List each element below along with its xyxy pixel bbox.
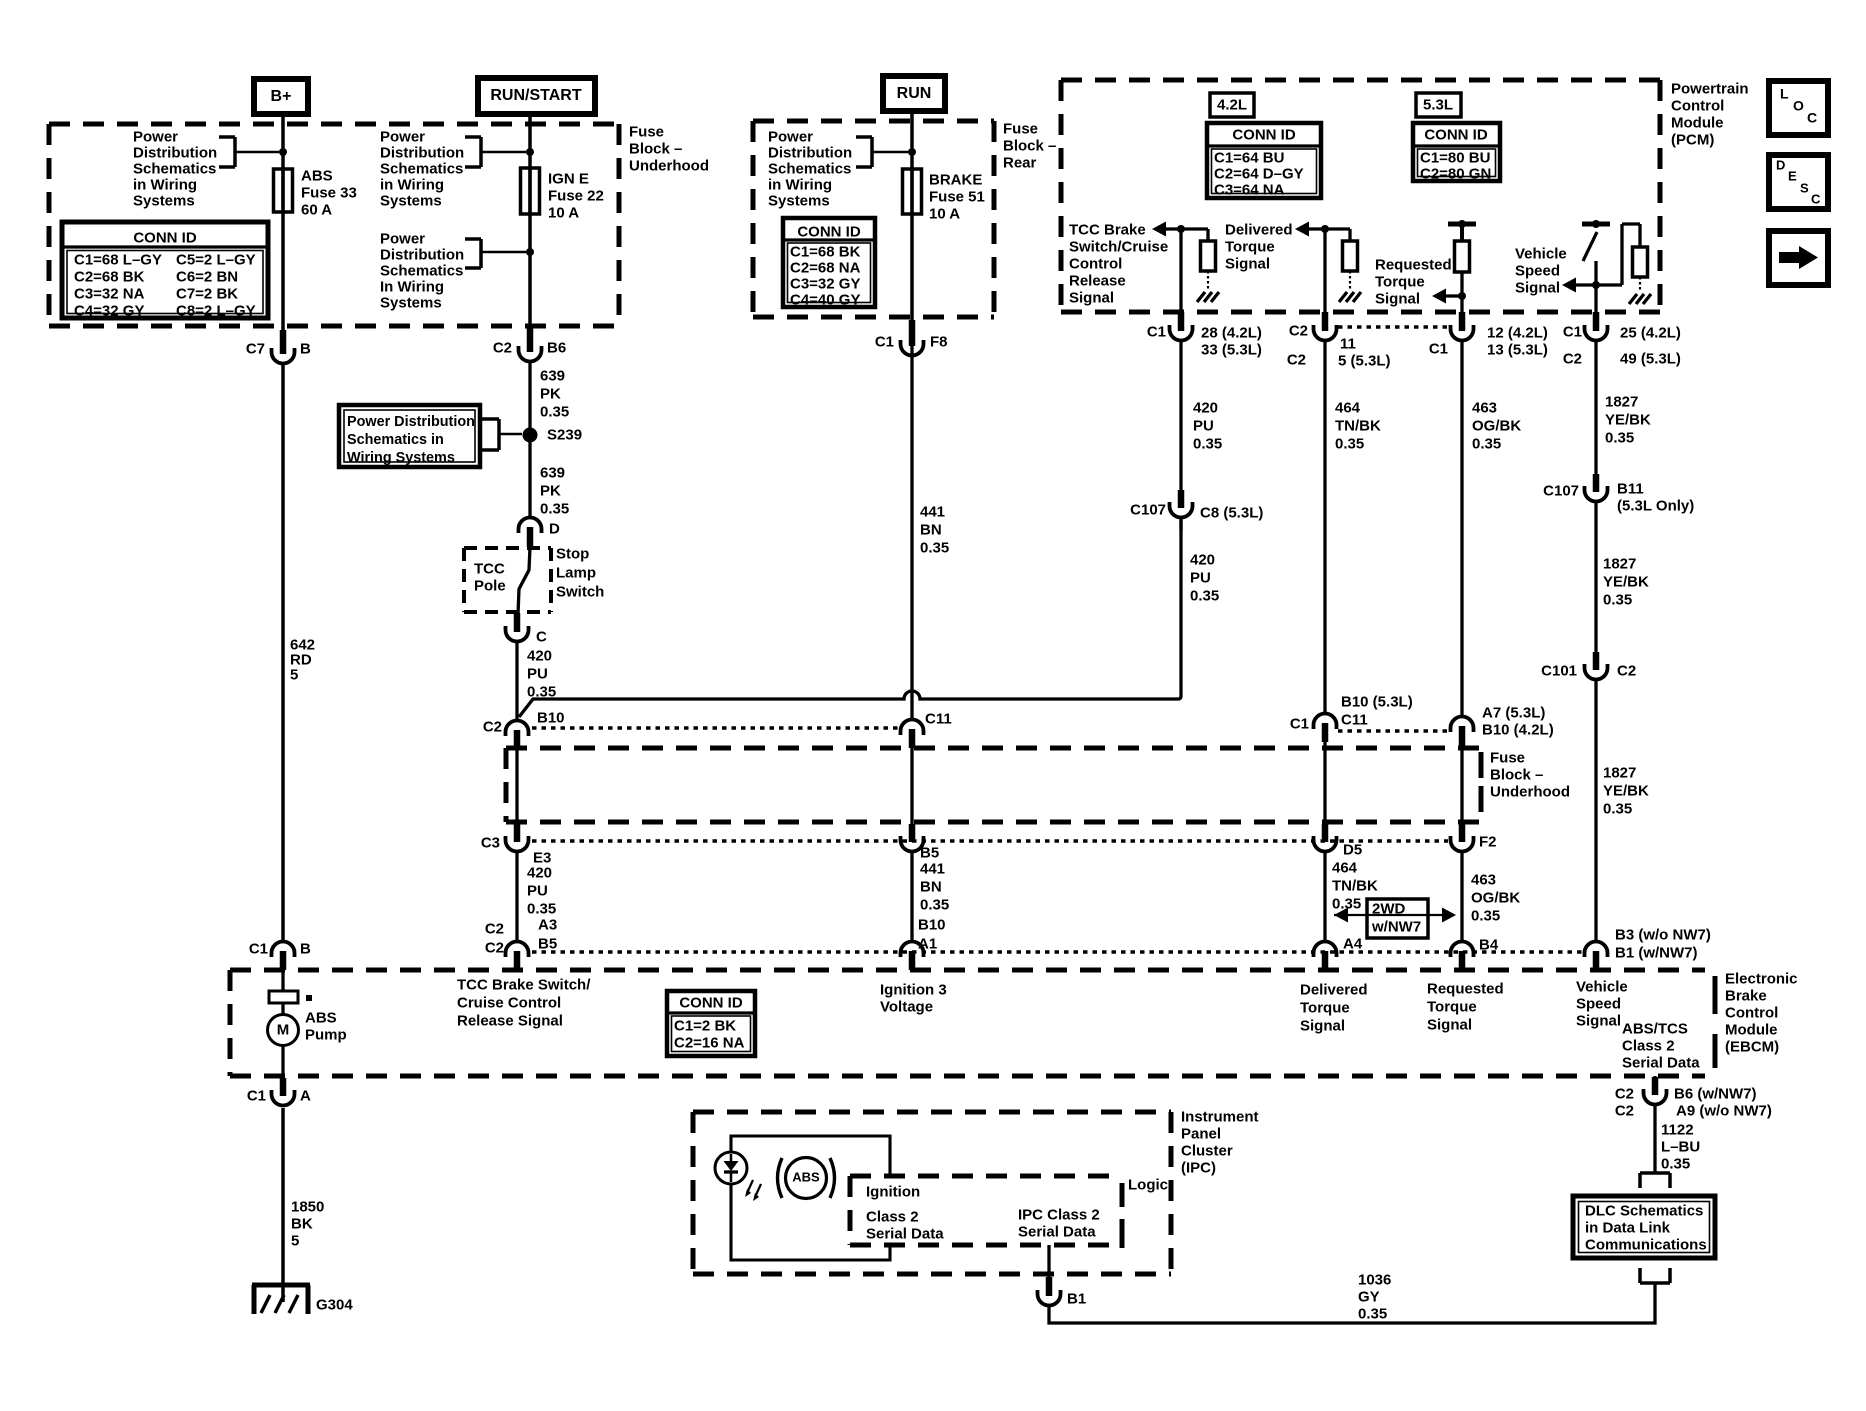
svg-text:C8 (5.3L): C8 (5.3L)	[1200, 504, 1263, 521]
svg-text:0.35: 0.35	[1472, 435, 1501, 452]
svg-text:CONN ID: CONN ID	[133, 229, 197, 246]
svg-text:C2: C2	[483, 718, 502, 735]
svg-text:1827: 1827	[1603, 764, 1636, 781]
wire 642 RD 5	[281, 363, 285, 943]
svg-text:Stop: Stop	[556, 545, 589, 562]
connector pins B3 B1	[1585, 926, 1711, 970]
svg-text:C1=64 BU: C1=64 BU	[1214, 149, 1284, 166]
wire PCM col2 to pin	[1323, 229, 1326, 322]
wire 1827 YE/BK col4	[1594, 341, 1597, 476]
connector C1 pin F8	[875, 320, 948, 356]
svg-text:D: D	[1776, 158, 1785, 173]
fuse ABS Fuse 33 60 A	[274, 169, 293, 212]
svg-text:Ignition: Ignition	[866, 1183, 920, 1200]
svg-text:Serial Data: Serial Data	[1018, 1223, 1096, 1240]
DESC reference box	[1769, 155, 1828, 209]
svg-text:441: 441	[920, 503, 945, 520]
svg-text:4.2L: 4.2L	[1217, 96, 1247, 113]
svg-text:Signal: Signal	[1300, 1017, 1345, 1034]
ground G304	[252, 1285, 310, 1314]
label 420 PU 0.35 (switch)	[527, 647, 556, 700]
svg-text:1850: 1850	[291, 1198, 324, 1215]
svg-text:C: C	[1811, 192, 1821, 207]
label 420 PU 0.35 col1 lower	[1190, 551, 1219, 604]
node junction on B+ wire	[279, 148, 287, 156]
label 464 TN/BK 0.35 lower	[1332, 859, 1378, 912]
svg-text:0.35: 0.35	[920, 896, 949, 913]
svg-text:YE/BK: YE/BK	[1603, 782, 1649, 799]
svg-text:PK: PK	[540, 385, 561, 402]
svg-text:Delivered: Delivered	[1300, 981, 1368, 998]
PCM connector C1 pin 28/33	[1147, 312, 1262, 358]
wire 463 OG/BK to EBCM	[1460, 851, 1463, 942]
ABS telltale symbol	[778, 1158, 835, 1199]
wire RUN to C1 F8	[910, 111, 914, 327]
svg-text:2WD: 2WD	[1372, 900, 1406, 917]
svg-text:Power: Power	[133, 128, 178, 145]
svg-text:B10 (4.2L): B10 (4.2L)	[1482, 721, 1554, 738]
IPC lamp wiring	[731, 1136, 890, 1260]
svg-text:25 (4.2L): 25 (4.2L)	[1620, 324, 1681, 341]
svg-text:F2: F2	[1479, 833, 1497, 850]
svg-text:C2: C2	[1615, 1085, 1634, 1102]
svg-text:C8=2 L–GY: C8=2 L–GY	[176, 302, 256, 319]
dotted connector line C2-C11	[532, 726, 899, 730]
svg-text:Pole: Pole	[474, 577, 506, 594]
label ABS/TCS Class 2 Serial Data	[1622, 1020, 1700, 1071]
svg-text:B4: B4	[1479, 936, 1499, 953]
label IGN E Fuse 22 10 A	[548, 170, 604, 221]
svg-text:13 (5.3L): 13 (5.3L)	[1487, 341, 1548, 358]
svg-text:TCC Brake Switch/: TCC Brake Switch/	[457, 976, 591, 993]
svg-text:C2: C2	[1289, 322, 1308, 339]
svg-text:C1: C1	[1290, 715, 1309, 732]
svg-text:C6=2 BN: C6=2 BN	[176, 268, 238, 285]
svg-text:420: 420	[527, 864, 552, 881]
svg-text:0.35: 0.35	[1471, 907, 1500, 924]
PCM col2 pull-up resistor to ground	[1325, 229, 1361, 302]
label ABS Pump	[305, 1009, 347, 1043]
dotted connector line PCM C2-C1	[1338, 325, 1450, 329]
PCM col4 source bar and switch	[1582, 220, 1610, 322]
svg-text:B10: B10	[537, 709, 565, 726]
label Delivered Torque Signal (EBCM)	[1300, 981, 1368, 1034]
connector C7 pin B	[246, 330, 311, 364]
svg-text:464: 464	[1332, 859, 1358, 876]
wire 1122 L-BU	[1653, 1104, 1656, 1173]
svg-text:M: M	[277, 1021, 290, 1038]
svg-text:C1=80 BU: C1=80 BU	[1420, 149, 1490, 166]
svg-text:C2=64 D–GY: C2=64 D–GY	[1214, 165, 1304, 182]
svg-text:C1: C1	[247, 1087, 266, 1104]
label power distribution schematics (ign lower)	[380, 230, 464, 311]
wire B+ to fuse 33	[281, 114, 285, 330]
svg-text:C107: C107	[1130, 501, 1166, 518]
svg-text:C2: C2	[485, 920, 504, 937]
fuse BRAKE Fuse 51 10 A	[903, 169, 922, 214]
label Stop Lamp Switch	[556, 545, 604, 600]
electronic brake control module box	[230, 970, 1705, 1076]
svg-text:0.35: 0.35	[1193, 435, 1222, 452]
svg-text:Signal: Signal	[1225, 255, 1270, 272]
connector C107 pin B11	[1543, 474, 1694, 514]
svg-text:C11: C11	[925, 710, 952, 727]
svg-text:Fuse: Fuse	[1490, 749, 1525, 766]
svg-text:B5: B5	[920, 844, 939, 861]
svg-text:B: B	[300, 940, 311, 957]
svg-text:Torque: Torque	[1375, 273, 1425, 290]
svg-text:C3: C3	[481, 834, 500, 851]
label 1827 YE/BK 0.35 col4	[1605, 393, 1651, 446]
svg-text:0.35: 0.35	[540, 500, 569, 517]
label G304	[316, 1296, 353, 1313]
label Delivered Torque Signal (PCM)	[1225, 221, 1293, 272]
connector pin F2	[1451, 824, 1497, 851]
label Logic	[1128, 1176, 1168, 1193]
label Fuse Block - Underhood middle	[1490, 749, 1570, 800]
svg-text:Electronic: Electronic	[1725, 970, 1798, 987]
svg-text:C1: C1	[249, 940, 268, 957]
svg-text:Signal: Signal	[1515, 279, 1560, 296]
label TCC Brake Switch Cruise Control Release Signal	[457, 976, 591, 1029]
wire 464 TN/BK to EBCM	[1323, 851, 1326, 942]
svg-text:Distribution: Distribution	[380, 246, 464, 263]
wire PCM col1 to pin	[1179, 229, 1182, 322]
bracket to RUN/START wire upper	[465, 137, 526, 167]
wire through fuse block (RUN col)	[910, 748, 913, 826]
label S239	[547, 426, 582, 443]
wire 420 PU to EBCM	[515, 851, 518, 942]
svg-text:C1: C1	[1429, 340, 1448, 357]
connector C2 pins B6/A9	[1615, 1076, 1772, 1119]
svg-text:Control: Control	[1725, 1004, 1778, 1021]
svg-text:C7=2 BK: C7=2 BK	[176, 285, 238, 302]
svg-text:Module: Module	[1725, 1021, 1778, 1038]
svg-text:Control: Control	[1069, 255, 1122, 272]
svg-text:Control: Control	[1671, 97, 1724, 114]
svg-text:Schematics: Schematics	[380, 160, 463, 177]
splice S239	[523, 428, 538, 443]
label Ignition 3 Voltage	[880, 981, 947, 1015]
svg-text:PU: PU	[527, 882, 548, 899]
svg-text:w/NW7: w/NW7	[1371, 918, 1421, 935]
connector table CONN ID 5.3L	[1413, 123, 1500, 182]
svg-text:DLC Schematics: DLC Schematics	[1585, 1202, 1703, 1219]
svg-text:C: C	[536, 628, 547, 645]
wire col3 through fuse block	[1460, 748, 1463, 826]
svg-text:F8: F8	[930, 333, 948, 350]
svg-text:60 A: 60 A	[301, 201, 332, 218]
connector C2 pins A3 B5	[485, 916, 557, 970]
svg-text:5: 5	[291, 1232, 299, 1249]
connector C1 pin A	[247, 1078, 311, 1106]
wire RUN/START to fuse 22	[528, 114, 532, 327]
svg-text:Module: Module	[1671, 114, 1724, 131]
svg-text:0.35: 0.35	[1603, 800, 1632, 817]
svg-text:G304: G304	[316, 1296, 353, 1313]
wire 463 OG/BK col3	[1460, 341, 1463, 717]
svg-text:CONN ID: CONN ID	[679, 994, 743, 1011]
svg-text:B: B	[300, 340, 311, 357]
svg-text:B3 (w/o NW7): B3 (w/o NW7)	[1615, 926, 1711, 943]
svg-text:33 (5.3L): 33 (5.3L)	[1201, 341, 1262, 358]
label 639 PK 0.35 upper	[540, 367, 569, 420]
svg-text:YE/BK: YE/BK	[1603, 573, 1649, 590]
svg-text:A3: A3	[538, 916, 557, 933]
fuse block underhood box	[49, 124, 619, 326]
label power distribution schematics (B+)	[133, 128, 217, 209]
svg-text:in Data Link: in Data Link	[1585, 1219, 1671, 1236]
svg-text:C: C	[1807, 110, 1817, 126]
svg-text:C11: C11	[1341, 711, 1368, 728]
svg-text:A4: A4	[1343, 935, 1363, 952]
svg-text:10 A: 10 A	[548, 204, 579, 221]
svg-text:Fuse: Fuse	[629, 123, 664, 140]
IPC logic dashed box	[850, 1176, 1122, 1248]
svg-text:RUN: RUN	[897, 85, 932, 102]
svg-text:IGN E: IGN E	[548, 170, 589, 187]
svg-text:in Wiring: in Wiring	[380, 176, 444, 193]
svg-text:O: O	[1793, 98, 1804, 114]
svg-text:Pump: Pump	[305, 1026, 347, 1043]
PCM col4 arrow out	[1562, 278, 1596, 293]
dotted connector line middle	[532, 839, 1448, 843]
connector pin D stop lamp switch	[519, 518, 561, 548]
svg-text:Systems: Systems	[380, 192, 442, 209]
svg-text:Switch/Cruise: Switch/Cruise	[1069, 238, 1168, 255]
svg-text:in Wiring: in Wiring	[768, 176, 832, 193]
svg-text:5: 5	[290, 666, 298, 683]
svg-text:C7: C7	[246, 340, 265, 357]
svg-text:Distribution: Distribution	[133, 144, 217, 161]
2WD w/NW7 option box and arrow	[1334, 899, 1456, 938]
svg-text:Serial Data: Serial Data	[1622, 1054, 1700, 1071]
PCM connector C1 pin 12/13	[1429, 312, 1548, 358]
svg-text:Switch: Switch	[556, 583, 604, 600]
wire 464 TN/BK col2	[1323, 341, 1326, 713]
connector table CONN ID 4.2L	[1207, 123, 1321, 198]
svg-text:C101: C101	[1541, 662, 1577, 679]
svg-text:Wiring Systems: Wiring Systems	[347, 450, 455, 466]
svg-text:Torque: Torque	[1427, 998, 1477, 1015]
svg-text:0.35: 0.35	[920, 539, 949, 556]
svg-text:Underhood: Underhood	[629, 157, 709, 174]
PCM col3 arrow out	[1432, 289, 1466, 304]
svg-text:C3=64 NA: C3=64 NA	[1214, 181, 1285, 198]
connector table CONN ID underhood	[62, 222, 268, 319]
node junction on RUN wire	[908, 148, 916, 156]
label 1036 GY 0.35	[1358, 1271, 1391, 1322]
svg-text:L–BU: L–BU	[1661, 1138, 1700, 1155]
svg-text:0.35: 0.35	[527, 900, 556, 917]
svg-text:C2=16 NA: C2=16 NA	[674, 1034, 745, 1051]
wire IPC to B1	[1047, 1245, 1050, 1283]
svg-text:C4=32 GY: C4=32 GY	[74, 302, 144, 319]
svg-text:Cluster: Cluster	[1181, 1142, 1233, 1159]
svg-text:441: 441	[920, 860, 945, 877]
PCM col4 loop to resistor ground	[1596, 224, 1651, 304]
svg-text:Distribution: Distribution	[768, 144, 852, 161]
ABS pump solenoid	[269, 991, 312, 1003]
PCM col1 pull-up resistor to ground	[1181, 229, 1219, 302]
svg-text:C2=80 GN: C2=80 GN	[1420, 165, 1491, 182]
svg-text:Underhood: Underhood	[1490, 783, 1570, 800]
label Vehicle Speed Signal (PCM)	[1515, 245, 1567, 296]
svg-text:Schematics: Schematics	[380, 262, 463, 279]
svg-text:C3=32 GY: C3=32 GY	[790, 275, 860, 292]
svg-text:12 (4.2L): 12 (4.2L)	[1487, 324, 1548, 341]
label Fuse Block - Rear	[1003, 120, 1056, 171]
svg-text:(5.3L Only): (5.3L Only)	[1617, 497, 1694, 514]
svg-text:Fuse 33: Fuse 33	[301, 184, 357, 201]
svg-text:5.3L: 5.3L	[1423, 96, 1453, 113]
svg-text:ABS: ABS	[792, 1170, 820, 1185]
svg-text:Class 2: Class 2	[1622, 1037, 1675, 1054]
next page arrow box	[1769, 231, 1828, 285]
wire branch to PCM col1 with hop over RUN wire	[519, 517, 1181, 717]
wire through fuse block (switch col)	[515, 748, 518, 826]
svg-text:464: 464	[1335, 399, 1361, 416]
svg-text:Distribution: Distribution	[380, 144, 464, 161]
svg-text:C1: C1	[1147, 323, 1166, 340]
svg-text:0.35: 0.35	[540, 403, 569, 420]
wire col2 through fuse block	[1323, 742, 1326, 826]
svg-text:1827: 1827	[1605, 393, 1638, 410]
svg-text:463: 463	[1472, 399, 1497, 416]
svg-text:Speed: Speed	[1515, 262, 1560, 279]
bracket to B+ wire	[219, 137, 279, 167]
svg-text:Fuse 51: Fuse 51	[929, 188, 985, 205]
svg-text:Systems: Systems	[380, 294, 442, 311]
label 1850 BK 5	[291, 1198, 324, 1249]
PCM connector C2 pin 11/5	[1287, 312, 1391, 369]
EBCM label bracket	[1713, 976, 1718, 1068]
svg-text:Block –: Block –	[629, 140, 682, 157]
label 1122 L-BU 0.35	[1661, 1121, 1700, 1172]
svg-text:Cruise Control: Cruise Control	[457, 994, 561, 1011]
connector C2 pin B10	[483, 709, 565, 748]
svg-text:Instrument: Instrument	[1181, 1108, 1259, 1125]
label Instrument Panel Cluster (IPC)	[1181, 1108, 1259, 1176]
svg-text:Schematics: Schematics	[133, 160, 216, 177]
svg-text:Ignition 3: Ignition 3	[880, 981, 947, 998]
node junction on RUN/START wire upper	[526, 148, 534, 156]
svg-text:B+: B+	[271, 88, 292, 105]
label power distribution schematics (ign upper)	[380, 128, 464, 209]
power terminal RUN/START	[478, 78, 595, 114]
svg-text:Signal: Signal	[1375, 290, 1420, 307]
svg-text:Release: Release	[1069, 272, 1126, 289]
label 441 BN 0.35 lower	[920, 860, 949, 913]
svg-text:Power: Power	[768, 128, 813, 145]
svg-text:D: D	[549, 520, 560, 537]
svg-text:(IPC): (IPC)	[1181, 1159, 1216, 1176]
svg-text:PU: PU	[527, 665, 548, 682]
svg-text:A7 (5.3L): A7 (5.3L)	[1482, 704, 1545, 721]
svg-text:Requested: Requested	[1427, 980, 1504, 997]
svg-text:TCC: TCC	[474, 560, 505, 577]
wire col1 lower segment	[1179, 517, 1182, 530]
svg-text:463: 463	[1471, 871, 1496, 888]
svg-text:C1: C1	[875, 333, 894, 350]
connector table CONN ID EBCM	[667, 991, 755, 1056]
svg-text:C2=68 BK: C2=68 BK	[74, 268, 145, 285]
LED light arrows	[745, 1180, 761, 1201]
svg-text:Delivered: Delivered	[1225, 221, 1293, 238]
svg-text:C2=68 NA: C2=68 NA	[790, 259, 861, 276]
svg-text:TN/BK: TN/BK	[1335, 417, 1381, 434]
svg-text:B1 (w/NW7): B1 (w/NW7)	[1615, 944, 1698, 961]
label 420 PU 0.35 (to EBCM)	[527, 864, 556, 917]
svg-text:BN: BN	[920, 521, 942, 538]
label 463 OG/BK 0.35 lower	[1471, 871, 1520, 924]
dotted connector line C1 to next	[1338, 729, 1450, 733]
power distribution schematics box S239	[339, 405, 480, 467]
svg-text:D5: D5	[1343, 841, 1362, 858]
svg-text:ABS: ABS	[305, 1009, 337, 1026]
label 464 TN/BK 0.35 col2	[1335, 399, 1381, 452]
svg-text:C2: C2	[1287, 351, 1306, 368]
svg-text:Power: Power	[380, 128, 425, 145]
connector C2 pin B6	[493, 327, 566, 362]
svg-text:Speed: Speed	[1576, 995, 1621, 1012]
svg-text:B1: B1	[1067, 1290, 1086, 1307]
svg-text:Block –: Block –	[1003, 137, 1056, 154]
svg-text:BK: BK	[291, 1215, 313, 1232]
label TCC Pole	[474, 560, 506, 594]
svg-text:639: 639	[540, 367, 565, 384]
svg-text:1122: 1122	[1661, 1121, 1694, 1138]
svg-text:0.35: 0.35	[1661, 1155, 1690, 1172]
svg-text:5 (5.3L): 5 (5.3L)	[1338, 352, 1391, 369]
svg-text:In Wiring: In Wiring	[380, 278, 444, 295]
svg-text:Systems: Systems	[133, 192, 195, 209]
label 642 RD 5	[290, 636, 315, 683]
svg-text:in Wiring: in Wiring	[133, 176, 197, 193]
svg-text:C2: C2	[1615, 1102, 1634, 1119]
TCC pole dashed box	[464, 548, 551, 612]
svg-text:BRAKE: BRAKE	[929, 171, 982, 188]
svg-text:B10: B10	[918, 916, 946, 933]
svg-text:0.35: 0.35	[1335, 435, 1364, 452]
svg-text:B5: B5	[538, 935, 557, 952]
wire 420 PU col1	[1179, 341, 1182, 492]
fuse block underhood middle box	[506, 748, 1490, 822]
svg-text:E: E	[1788, 169, 1797, 184]
svg-text:Signal: Signal	[1427, 1016, 1472, 1033]
svg-text:C2: C2	[1617, 662, 1636, 679]
svg-text:C5=2 L–GY: C5=2 L–GY	[176, 251, 256, 268]
svg-text:Voltage: Voltage	[880, 998, 933, 1015]
svg-text:Vehicle: Vehicle	[1576, 978, 1628, 995]
svg-text:IPC Class 2: IPC Class 2	[1018, 1206, 1100, 1223]
svg-text:GY: GY	[1358, 1288, 1380, 1305]
svg-text:Logic: Logic	[1128, 1176, 1168, 1193]
svg-text:Serial Data: Serial Data	[866, 1225, 944, 1242]
svg-text:OG/BK: OG/BK	[1472, 417, 1521, 434]
svg-text:Systems: Systems	[768, 192, 830, 209]
node junction on RUN/START wire lower	[526, 248, 534, 256]
svg-text:Class 2: Class 2	[866, 1208, 919, 1225]
powertrain control module box	[1061, 80, 1660, 312]
svg-text:Brake: Brake	[1725, 987, 1767, 1004]
wire 441 BN upper	[910, 341, 913, 719]
svg-text:C4=40 GY: C4=40 GY	[790, 291, 860, 308]
svg-text:PU: PU	[1193, 417, 1214, 434]
label 639 PK 0.35 lower	[540, 464, 569, 517]
label ABS Fuse 33 60 A	[301, 167, 357, 218]
svg-text:C2: C2	[493, 339, 512, 356]
